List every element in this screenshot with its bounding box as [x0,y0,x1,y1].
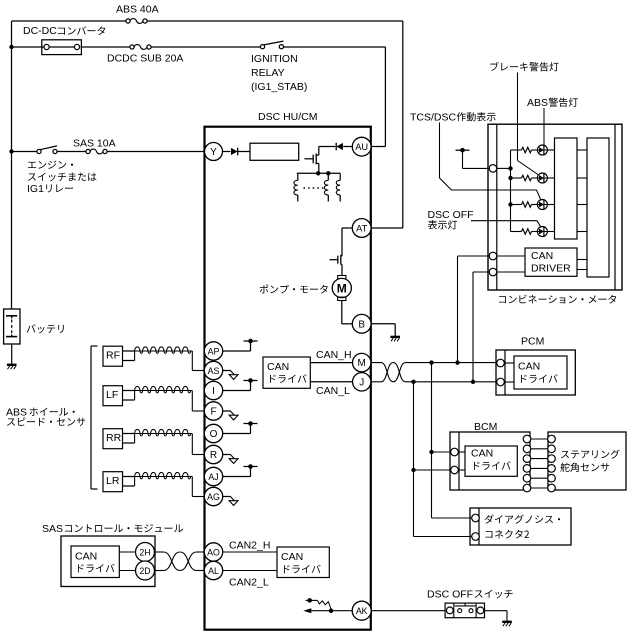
svg-text:J: J [359,377,364,388]
svg-text:DSC OFF: DSC OFF [428,209,474,221]
svg-text:AS: AS [208,366,220,376]
svg-text:(IG1_STAB): (IG1_STAB) [251,81,307,93]
svg-text:CAN: CAN [75,551,97,563]
svg-text:AT: AT [356,224,368,234]
svg-text:AO: AO [207,548,220,558]
svg-text:ABS: ABS [527,97,548,109]
svg-text:DSC HU/CM: DSC HU/CM [258,111,318,123]
svg-text:ABS 40A: ABS 40A [116,4,159,16]
svg-text:DCDC SUB 20A: DCDC SUB 20A [107,53,183,65]
svg-text:CAN: CAN [531,250,553,262]
svg-text:AU: AU [355,142,368,152]
svg-text:CAN: CAN [471,448,493,460]
svg-text:CAN: CAN [518,361,540,373]
svg-text:F: F [210,406,216,417]
svg-text:CAN: CAN [281,551,303,563]
svg-text:SAS 10A: SAS 10A [73,138,116,150]
svg-text:RELAY: RELAY [251,67,285,79]
svg-text:SAS: SAS [42,523,63,535]
svg-text:IGNITION: IGNITION [251,53,298,65]
svg-text:B: B [358,319,365,330]
svg-text:CAN2_H: CAN2_H [229,540,270,552]
svg-text:AK: AK [356,606,368,616]
svg-text:AL: AL [208,566,219,576]
svg-text:CAN_L: CAN_L [316,385,350,397]
svg-text:2H: 2H [139,548,150,558]
svg-text:R: R [210,450,217,461]
svg-text:IG1: IG1 [27,183,44,195]
svg-text:DSC OFF: DSC OFF [427,589,473,601]
svg-text:ABS: ABS [6,407,27,419]
svg-text:CAN2_L: CAN2_L [229,577,269,589]
svg-text:Y: Y [210,147,217,158]
svg-text:RF: RF [106,350,120,362]
svg-text:RR: RR [106,432,122,444]
svg-text:2D: 2D [139,566,150,576]
svg-text:PCM: PCM [521,336,544,348]
svg-text:AJ: AJ [208,472,218,482]
svg-text:I: I [212,386,215,397]
svg-text:AP: AP [208,346,220,356]
svg-text:LF: LF [106,389,118,401]
svg-text:BCM: BCM [474,421,497,433]
svg-text:M: M [358,358,366,369]
svg-text:AG: AG [207,492,220,502]
svg-text:TCS/DSC: TCS/DSC [410,112,457,124]
svg-text:CAN_H: CAN_H [316,349,352,361]
svg-text:CAN: CAN [267,361,289,373]
svg-text:M: M [337,281,347,295]
svg-text:DC-DC: DC-DC [23,25,57,37]
svg-text:O: O [210,429,218,440]
svg-text:LR: LR [106,475,120,487]
svg-text:DRIVER: DRIVER [531,263,571,275]
